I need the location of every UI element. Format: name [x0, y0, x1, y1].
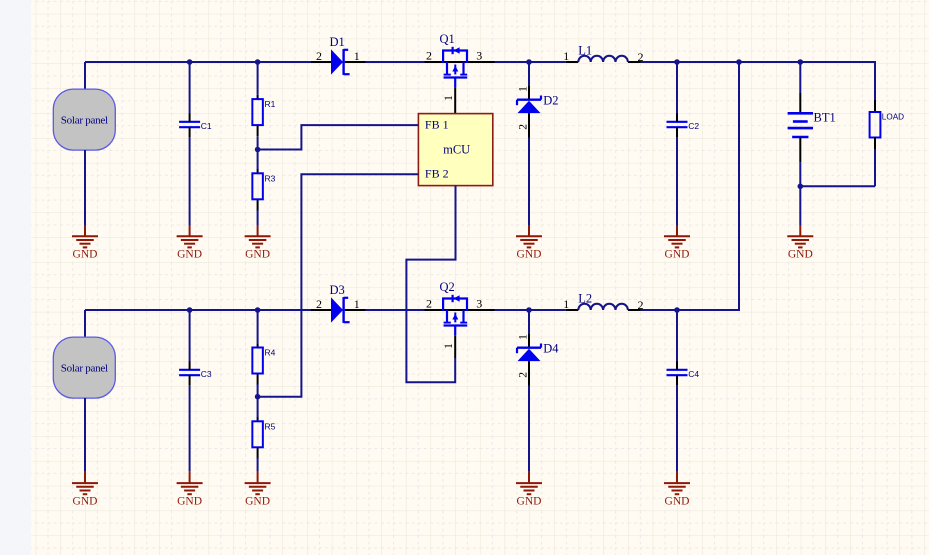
svg-text:2: 2	[638, 50, 644, 64]
svg-text:GND: GND	[788, 249, 813, 261]
svg-text:FB 2: FB 2	[425, 167, 449, 181]
svg-text:GND: GND	[177, 495, 202, 507]
svg-text:GND: GND	[245, 495, 270, 507]
svg-text:GND: GND	[665, 249, 690, 261]
svg-text:1: 1	[518, 86, 530, 92]
svg-text:3: 3	[476, 297, 482, 311]
svg-text:R1: R1	[265, 99, 276, 109]
svg-text:GND: GND	[245, 249, 270, 261]
svg-text:1: 1	[563, 297, 569, 311]
svg-text:C3: C3	[201, 369, 212, 379]
svg-text:GND: GND	[517, 249, 542, 261]
svg-text:C4: C4	[688, 369, 699, 379]
svg-text:GND: GND	[665, 495, 690, 507]
svg-text:BT1: BT1	[814, 110, 836, 124]
svg-text:1: 1	[354, 297, 360, 311]
svg-text:2: 2	[426, 49, 432, 63]
svg-text:GND: GND	[73, 249, 98, 261]
svg-text:2: 2	[518, 124, 530, 130]
svg-text:Solar panel: Solar panel	[61, 362, 108, 374]
svg-text:2: 2	[316, 49, 322, 63]
svg-text:1: 1	[354, 49, 360, 63]
svg-text:GND: GND	[73, 495, 98, 507]
svg-text:GND: GND	[517, 495, 542, 507]
svg-text:L1: L1	[578, 43, 592, 57]
svg-text:FB 1: FB 1	[425, 118, 449, 132]
svg-text:D3: D3	[330, 283, 345, 297]
svg-text:Q2: Q2	[440, 280, 455, 294]
svg-text:mCU: mCU	[443, 143, 470, 157]
svg-text:LOAD: LOAD	[882, 112, 904, 121]
svg-text:1: 1	[563, 49, 569, 63]
svg-text:R5: R5	[265, 421, 276, 431]
svg-text:C2: C2	[688, 121, 699, 131]
svg-text:Q1: Q1	[440, 32, 455, 46]
svg-text:2: 2	[638, 298, 644, 312]
svg-text:D4: D4	[543, 342, 559, 356]
svg-text:2: 2	[316, 297, 322, 311]
svg-text:2: 2	[518, 372, 530, 378]
svg-text:R3: R3	[265, 173, 276, 183]
svg-text:D1: D1	[330, 35, 345, 49]
svg-text:1: 1	[443, 95, 455, 101]
svg-text:1: 1	[518, 334, 530, 340]
svg-text:2: 2	[426, 297, 432, 311]
svg-text:L2: L2	[578, 291, 592, 305]
svg-text:Solar panel: Solar panel	[61, 114, 108, 126]
svg-text:C1: C1	[201, 121, 212, 131]
svg-text:3: 3	[476, 49, 482, 63]
svg-text:1: 1	[443, 343, 455, 349]
svg-text:R4: R4	[265, 348, 276, 358]
svg-text:GND: GND	[177, 249, 202, 261]
svg-text:D2: D2	[543, 94, 558, 108]
